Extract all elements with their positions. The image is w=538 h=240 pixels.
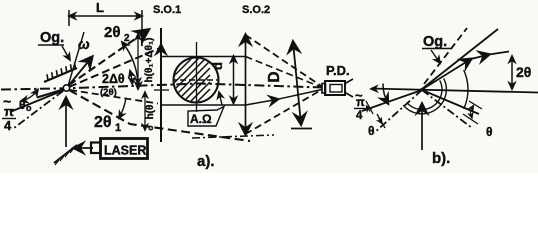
svg-text:(2θ): (2θ) [100, 87, 117, 98]
deflected ray (dashed) to S.O.1 top [69, 30, 148, 85]
inner converging ray bottom (dashed) [246, 99, 279, 105]
svg-text:o: o [26, 103, 32, 113]
svg-text:P.D.: P.D. [326, 63, 350, 78]
down-left solid ray b [362, 90, 422, 111]
svg-text:h(θ: h(θ [145, 105, 156, 120]
inner converging ray top (dashed) [246, 57, 323, 88]
scattering volume (hatched circle) [160, 19, 221, 139]
svg-text:S.O.1: S.O.1 [153, 4, 181, 16]
upper ray R1 b [422, 29, 498, 89]
svg-text:2: 2 [124, 33, 130, 44]
svg-text:2θ: 2θ [516, 64, 531, 80]
svg-text:θ: θ [368, 124, 375, 138]
S.O.2 aperture D line [245, 35, 247, 134]
svg-text:o: o [146, 125, 155, 130]
mirror second position line [37, 90, 63, 98]
svg-text:A.Ω: A.Ω [190, 112, 212, 126]
central node b [420, 88, 423, 91]
svg-text:2θ: 2θ [94, 114, 112, 131]
deflected ray 2 (dashed) [69, 48, 160, 87]
h(theta0) dimension line [144, 92, 146, 130]
optical axis (dash-dot) [1, 84, 323, 90]
scanning mirror M1 (hatched) [44, 63, 77, 83]
vertical beam from fold mirror to M1 [65, 98, 67, 147]
left theta dimension ticks b [366, 101, 373, 114]
left end tick [371, 88, 378, 90]
converging marginal ray top (dashed) [246, 35, 323, 87]
S.O.1 plane line [160, 28, 162, 142]
beam envelope top [161, 56, 246, 58]
L dimension [69, 0, 142, 46]
laser [91, 139, 148, 159]
double arc bottom b [407, 80, 442, 109]
dash-dot ray down-left [14, 91, 63, 128]
svg-text:Og.: Og. [423, 34, 447, 50]
down-right solid ray b [422, 90, 479, 114]
approx pi/4 label (at P.D.) [355, 88, 365, 122]
pivot node of mirror M1 [63, 85, 69, 91]
fold mirror M2 (hatched) [54, 145, 77, 165]
svg-text:d: d [210, 62, 225, 70]
large arc right b [464, 70, 468, 109]
svg-text:b).: b). [432, 150, 450, 167]
2theta2 angle arc [122, 42, 138, 89]
left theta angle arc b [383, 84, 388, 104]
2theta dimension b [511, 56, 513, 89]
beam envelope bottom [161, 104, 246, 106]
2theta1 angle arc [119, 98, 126, 118]
iris aperture line (dashed vertical) [293, 42, 301, 124]
svg-text:2Δθ: 2Δθ [102, 72, 125, 86]
Og. label b [422, 34, 452, 63]
svg-text:π: π [4, 104, 14, 119]
baseline dash-dot under D line [192, 135, 274, 138]
svg-text:4: 4 [4, 118, 12, 133]
right theta dimension ticks b [469, 101, 482, 109]
horizontal axis b [371, 89, 538, 93]
incident beam vertical arrow b [421, 104, 423, 150]
photodetector P.D. [322, 63, 353, 97]
beam from laser to fold mirror [74, 147, 93, 149]
svg-text:a).: a). [197, 153, 215, 170]
down-left dash-dot ray b [374, 90, 422, 133]
converging marginal ray bottom (dashed) [246, 90, 323, 135]
omega rotation arrow [69, 57, 92, 85]
Og. label (fig a) [38, 30, 70, 60]
ray down-left (theta0 ray) [10, 90, 64, 112]
reflected ray R2 with arrows b [422, 59, 471, 90]
svg-text:π: π [356, 97, 365, 109]
2theta1 dashed ray down-right [69, 90, 250, 141]
down-right dash-dot ray b [422, 90, 472, 128]
theta0 angle arc [21, 90, 38, 102]
h(theta1+dtheta1) dimension line [137, 34, 139, 84]
svg-text:1: 1 [115, 122, 121, 134]
svg-text:S.O.2: S.O.2 [242, 4, 270, 16]
2delta-theta arc [130, 71, 132, 84]
mirror plane (dashed) b [424, 28, 467, 84]
svg-text:Og.: Og. [40, 30, 64, 46]
svg-text:θ: θ [19, 98, 26, 112]
A.Omega label with pointer [188, 92, 224, 126]
svg-text:2θ: 2θ [104, 24, 120, 41]
svg-text:D: D [266, 71, 283, 82]
steep ray (mirror normal) [68, 32, 84, 86]
axis tick at S.O.1 [154, 89, 169, 91]
svg-text:h(θ₁+Δθ₁): h(θ₁+Δθ₁) [144, 38, 155, 83]
d dimension [233, 56, 235, 104]
small dashed ray below axis [70, 90, 158, 104]
svg-text:L: L [96, 0, 104, 15]
svg-text:θ: θ [486, 125, 493, 139]
svg-text:LASER: LASER [104, 144, 146, 158]
approx pi/4 label (left) [3, 93, 14, 133]
svg-text:4: 4 [356, 110, 363, 122]
arrow up on S.O.1 plane [160, 45, 162, 58]
